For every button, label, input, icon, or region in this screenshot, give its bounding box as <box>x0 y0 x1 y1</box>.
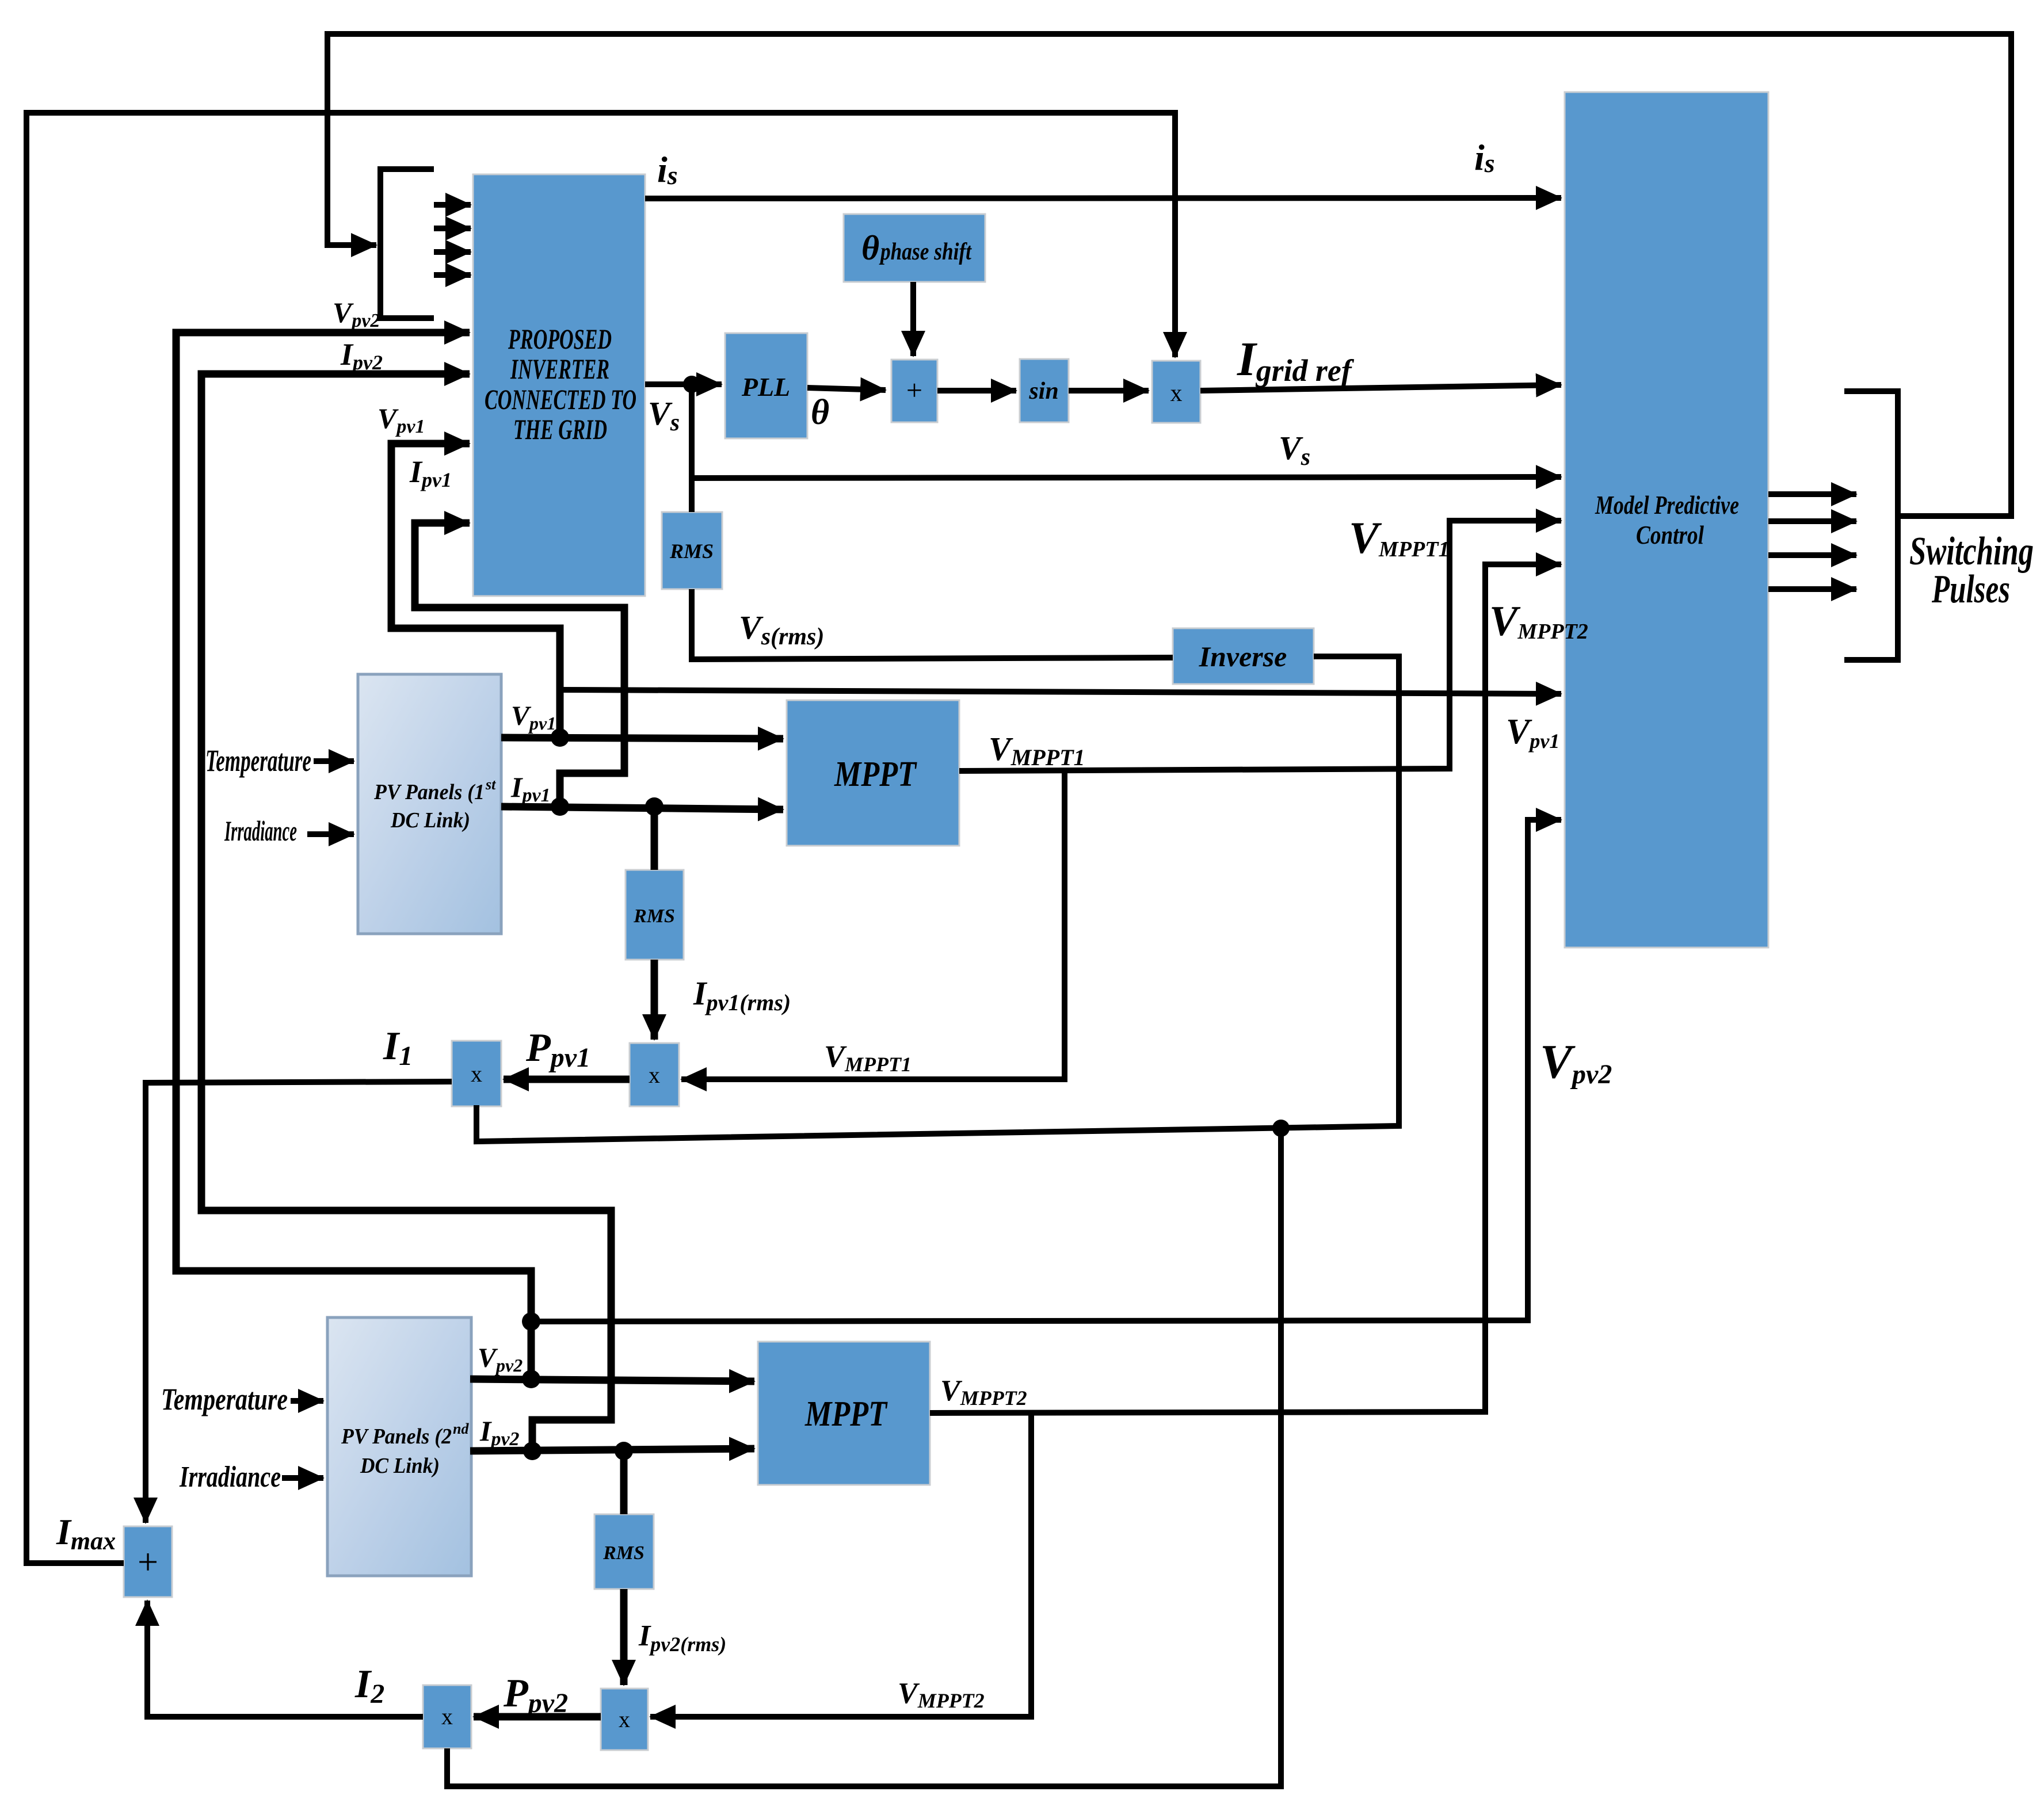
wire Vpv1 elbow to inverter <box>391 444 560 738</box>
label Ppv2 <box>503 1671 568 1718</box>
svg-text:Vs(rms): Vs(rms) <box>739 609 824 650</box>
wire irradiance 2 arrow <box>282 1475 323 1481</box>
svg-text:RMS: RMS <box>669 540 714 563</box>
svg-text:INVERTER: INVERTER <box>510 353 609 385</box>
svg-text:Control: Control <box>1636 520 1704 549</box>
svg-text:PV Panels (2: PV Panels (2 <box>341 1424 452 1449</box>
svg-text:phase shift: phase shift <box>879 239 972 265</box>
wire Ipv2 down to RMS2 <box>620 1451 628 1514</box>
label switching pulses <box>1909 529 2034 612</box>
label Vpv1 PV1 output <box>511 701 556 734</box>
svg-text:MPPT: MPPT <box>834 755 917 794</box>
svg-text:Inverse: Inverse <box>1199 640 1287 673</box>
svg-text:VMPPT1: VMPPT1 <box>824 1039 912 1076</box>
svg-text:Vpv1: Vpv1 <box>377 402 425 437</box>
wire sin to mult X1 <box>1069 388 1149 394</box>
block MPC model predictive control <box>1565 92 1768 948</box>
block mult X2 (Ppv1) <box>630 1043 679 1106</box>
wire Ipv2 elbow to inverter <box>201 374 611 1451</box>
wire bus arrow 4 <box>434 272 471 278</box>
label irradiance 1 <box>224 815 297 847</box>
wire MPC output pulse 3 <box>1768 552 1856 558</box>
wire temperature 2 arrow <box>291 1398 323 1404</box>
label VMPPT1 near MPC <box>1349 513 1449 563</box>
wire Ppv2 X4 to X5 <box>474 1713 601 1721</box>
block PLL <box>725 333 807 438</box>
label Vs(rms) <box>739 609 824 650</box>
wire temperature 1 arrow <box>314 758 354 764</box>
svg-text:θ: θ <box>861 229 879 267</box>
wire PLL to sum1 <box>807 388 886 390</box>
svg-text:Vs: Vs <box>1279 429 1310 471</box>
wire VMPPT2 branch down to X4 <box>650 1412 1031 1717</box>
label temperature 2 <box>161 1382 288 1416</box>
wire irradiance 1 arrow <box>307 831 354 837</box>
svg-text:Irradiance: Irradiance <box>224 815 297 847</box>
label VMPPT2 at MPPT2 <box>940 1374 1027 1410</box>
svg-text:Ipv1(rms): Ipv1(rms) <box>693 975 791 1015</box>
svg-text:DC Link): DC Link) <box>390 808 470 832</box>
svg-text:Model Predictive: Model Predictive <box>1595 490 1739 520</box>
svg-text:Ipv1: Ipv1 <box>409 454 452 491</box>
block mult X3 (I1) <box>452 1041 501 1106</box>
wire Inverse branch to X5 bottom <box>447 1128 1281 1786</box>
label Ipv1 PV1 output <box>510 771 551 806</box>
node Vpv2 branch <box>522 1312 540 1331</box>
wire VMPPT1 branch down to X2 <box>681 770 1065 1079</box>
svg-text:is: is <box>1474 137 1495 178</box>
label Imax <box>56 1511 116 1555</box>
wire Vs down to RMS <box>689 384 695 512</box>
block MPPT1 <box>787 700 959 846</box>
svg-text:Irradiance: Irradiance <box>179 1461 281 1494</box>
block theta phase shift <box>844 214 985 282</box>
wire Ipv1 elbow to inverter <box>415 523 624 807</box>
wire I1 X3 to sum2 <box>146 1082 452 1523</box>
label Vpv2 near MPC <box>1540 1035 1612 1090</box>
wire I2 X5 to sum2 <box>147 1601 423 1717</box>
svg-text:θ: θ <box>811 393 829 432</box>
svg-text:Ipv2: Ipv2 <box>479 1415 520 1450</box>
svg-text:st: st <box>485 776 496 793</box>
svg-text:PLL: PLL <box>741 372 790 402</box>
svg-text:RMS: RMS <box>602 1542 645 1564</box>
svg-text:Ppv2: Ppv2 <box>503 1671 568 1718</box>
svg-text:MPPT: MPPT <box>804 1395 888 1434</box>
block MPPT2 <box>758 1342 930 1485</box>
label Vs at PLL <box>648 395 680 436</box>
block sin <box>1020 359 1069 422</box>
svg-text:Vpv1: Vpv1 <box>1506 712 1559 753</box>
label Vpv1 inverter input <box>377 402 425 437</box>
label Ppv1 <box>525 1026 590 1073</box>
svg-text:VMPPT2: VMPPT2 <box>898 1677 985 1712</box>
wire Igrid ref mult X1 to MPC <box>1200 385 1561 391</box>
label irradiance 2 <box>179 1461 281 1494</box>
node Vpv1 junction <box>551 728 569 747</box>
node Inverse branch <box>1272 1120 1290 1137</box>
block PV panels 2nd DC link <box>327 1317 471 1576</box>
wire Vpv2 branch to MPC <box>531 820 1561 1322</box>
svg-text:VMPPT2: VMPPT2 <box>940 1374 1027 1410</box>
label I1 <box>383 1024 413 1071</box>
label Ipv2(rms) <box>638 1620 726 1656</box>
wire MPC output pulse 2 <box>1768 518 1856 524</box>
svg-text:I1: I1 <box>383 1024 413 1071</box>
block U1 proposed inverter <box>473 174 645 596</box>
label Vpv2 inverter input <box>333 296 380 331</box>
wire Imax feedback to mult X1 <box>26 113 1175 1563</box>
block Inverse <box>1173 628 1314 684</box>
svg-text:PROPOSED: PROPOSED <box>508 323 612 355</box>
svg-text:Igrid ref: Igrid ref <box>1237 333 1355 388</box>
svg-text:Vpv2: Vpv2 <box>1540 1035 1612 1090</box>
wire Vs inverter to PLL <box>645 381 722 387</box>
label Vpv2 PV2 output <box>478 1343 523 1376</box>
wire bus arrow 1 <box>434 202 471 208</box>
svg-text:RMS: RMS <box>633 906 675 927</box>
label VMPPT2 bottom <box>898 1677 985 1712</box>
label Ipv2 PV2 output <box>479 1415 520 1450</box>
svg-text:Ipv2(rms): Ipv2(rms) <box>638 1620 726 1656</box>
wire Vpv1 branch to MPC <box>560 690 1561 694</box>
node Ipv1 junction 1 <box>551 797 569 816</box>
label Vs mid <box>1279 429 1310 471</box>
wire sum1 to sin <box>937 388 1016 394</box>
label VMPPT2 near MPC <box>1489 598 1588 645</box>
wire MPPT2 output VMPPT2 <box>930 564 1561 1413</box>
svg-text:Pulses: Pulses <box>1931 567 2010 612</box>
switching pulses bracket <box>1844 391 1898 660</box>
wire MPC output pulse 1 <box>1768 491 1856 497</box>
node Vpv2 junction <box>522 1370 540 1388</box>
wire Ipv1 PV1 to MPPT1 <box>501 807 783 809</box>
block RMS (Vs) <box>662 512 722 589</box>
svg-text:Ipv1: Ipv1 <box>510 771 551 806</box>
block mult X1 (Igrid ref) <box>1152 361 1200 423</box>
svg-text:x: x <box>471 1061 482 1087</box>
wire RMS1 to X2 <box>651 960 658 1040</box>
svg-text:sin: sin <box>1028 378 1058 404</box>
svg-text:x: x <box>649 1062 660 1088</box>
wire MPC output pulse 4 <box>1768 586 1856 592</box>
svg-text:x: x <box>1170 380 1183 407</box>
wire is output to MPC <box>645 198 1561 198</box>
block mult X5 (I2) <box>423 1685 471 1748</box>
svg-text:Temperature: Temperature <box>161 1382 288 1416</box>
wire Inverse output down <box>476 656 1399 1141</box>
wire Vpv1 PV1 to MPPT1 <box>501 738 783 739</box>
svg-text:+: + <box>906 374 922 406</box>
label Ipv1 inverter input <box>409 454 452 491</box>
block RMS2 (Ipv2) <box>594 1514 654 1589</box>
label is 2 <box>1474 137 1495 178</box>
svg-text:I2: I2 <box>354 1662 384 1709</box>
svg-text:Vpv2: Vpv2 <box>478 1343 523 1376</box>
wire Vs branch to MPC <box>692 477 1561 478</box>
label is 1 <box>657 149 678 190</box>
svg-text:is: is <box>657 149 678 190</box>
wire Ipv1 down to RMS1 <box>651 807 658 870</box>
svg-text:CONNECTED TO: CONNECTED TO <box>485 383 636 415</box>
label Igrid ref <box>1237 333 1355 388</box>
label I2 <box>354 1662 384 1709</box>
wire switching pulses feedback top <box>327 34 2011 516</box>
wire RMS2 to X4 <box>620 1589 628 1685</box>
wire Ppv1 X2 to X3 <box>504 1076 630 1083</box>
wire MPPT1 output VMPPT1 <box>959 521 1561 771</box>
block sum1 <box>891 360 937 422</box>
label theta <box>811 393 829 432</box>
svg-text:Vpv1: Vpv1 <box>511 701 556 734</box>
block sum2 (Imax) <box>124 1526 172 1597</box>
node Ipv1 junction 2 <box>645 797 663 816</box>
svg-text:Imax: Imax <box>56 1511 116 1555</box>
wire Vpv2 elbow to inverter <box>176 333 531 1379</box>
svg-text:x: x <box>619 1706 630 1732</box>
svg-text:Temperature: Temperature <box>205 743 311 778</box>
label Ipv2 inverter input <box>340 337 383 374</box>
svg-text:VMPPT1: VMPPT1 <box>989 730 1085 770</box>
block RMS1 (Ipv1) <box>626 870 684 960</box>
svg-text:VMPPT1: VMPPT1 <box>1349 513 1449 563</box>
inverter input bus bracket <box>380 169 434 318</box>
label VMPPT1 at MPPT1 <box>989 730 1085 770</box>
label Ipv1(rms) <box>693 975 791 1015</box>
label VMPPT1 bottom <box>824 1039 912 1076</box>
wire bus arrow 3 <box>434 249 471 255</box>
wire Vpv2 PV2 to MPPT2 <box>470 1379 754 1381</box>
wire RMS to Vs(rms) to Inverse <box>692 589 1173 659</box>
svg-text:Ppv1: Ppv1 <box>525 1026 590 1073</box>
svg-text:x: x <box>441 1704 453 1729</box>
svg-text:Ipv2: Ipv2 <box>340 337 383 374</box>
label Vpv1 near MPC <box>1506 712 1559 753</box>
svg-text:Vs: Vs <box>648 395 680 436</box>
node Ipv2 junction 2 <box>615 1442 633 1460</box>
label temperature 1 <box>205 743 311 778</box>
svg-text:THE GRID: THE GRID <box>513 413 607 445</box>
node Ipv2 junction 1 <box>523 1442 541 1460</box>
block mult X4 (Ppv2) <box>601 1689 648 1750</box>
node Vs junction <box>683 376 700 393</box>
wire theta shift down to sum1 <box>910 282 916 356</box>
svg-text:nd: nd <box>453 1420 469 1437</box>
svg-text:+: + <box>138 1541 158 1582</box>
svg-text:Vpv2: Vpv2 <box>333 296 380 331</box>
wire Ipv2 PV2 to MPPT2 <box>470 1449 754 1451</box>
wire bus arrow 2 <box>434 226 471 231</box>
svg-text:DC Link): DC Link) <box>360 1454 440 1478</box>
block PV panels 1st DC link <box>358 674 501 934</box>
svg-text:PV Panels (1: PV Panels (1 <box>373 780 485 804</box>
